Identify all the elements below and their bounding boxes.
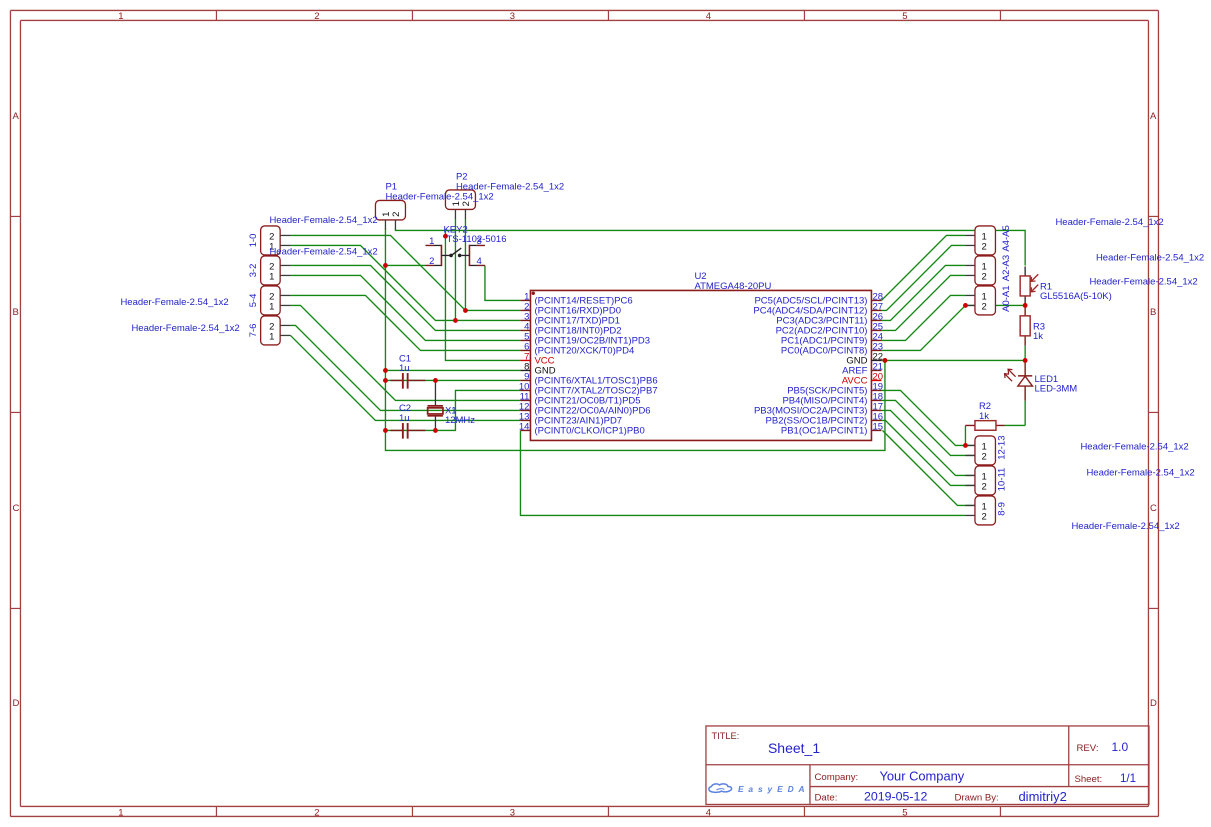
svg-text:D: D bbox=[12, 698, 19, 709]
junction node (435,380) bbox=[433, 378, 438, 383]
svg-text:5-4: 5-4 bbox=[248, 294, 259, 308]
U2 pin 11 (PCINT21/OC0B/T1)PD5 bbox=[520, 391, 641, 406]
svg-text:Sheet_1: Sheet_1 bbox=[768, 740, 820, 756]
svg-text:14: 14 bbox=[519, 421, 530, 432]
junction node (445,235.7) bbox=[443, 234, 448, 239]
wire U2 pin19 to header 12-13 pin1 bbox=[881, 390, 974, 445]
U2 pin 2 (PCINT16/RXD)PD0 bbox=[520, 301, 621, 316]
wire U2 pin10 XTAL2 down to C2/X1 node bbox=[385, 390, 520, 430]
wire LED1 cathode-side junction bbox=[1024, 400, 1026, 425]
wire H3 pin1 to U2 pin11 bbox=[290, 305, 520, 400]
U2 pin 15 PB1(OC1A/PCINT1) bbox=[781, 421, 883, 436]
svg-text:2: 2 bbox=[981, 302, 986, 313]
junction node (884.5,360) bbox=[883, 358, 888, 363]
wire H4 pin2 to U2 pin12 bbox=[290, 325, 520, 410]
svg-text:A: A bbox=[12, 111, 19, 122]
U2 pin 4 (PCINT18/INT0)PD2 bbox=[520, 321, 621, 336]
svg-text:4: 4 bbox=[476, 256, 481, 267]
U2 pin 9 (PCINT6/XTAL1/TOSC1)PB6 bbox=[520, 371, 657, 386]
wire H2 pin1 to U2 pin5 bbox=[290, 275, 520, 340]
U2 pin 25 PC2(ADC2/PCINT10) bbox=[776, 321, 883, 336]
svg-text:2: 2 bbox=[981, 482, 986, 493]
svg-text:Header-Female-2.54_1x2: Header-Female-2.54_1x2 bbox=[385, 191, 493, 202]
wire H3 pin2 to U2 pin6 bbox=[290, 295, 520, 350]
svg-text:REV:: REV: bbox=[1076, 743, 1098, 754]
U2 pin 18 PB4(MISO/PCINT4) bbox=[782, 391, 883, 406]
svg-text:5: 5 bbox=[902, 808, 907, 819]
wire U2 pin15 to header 8-9 pin1 bbox=[882, 430, 974, 505]
wire U2 pin16 to header 10-11 pin2 bbox=[881, 420, 974, 485]
svg-text:1u: 1u bbox=[399, 413, 410, 424]
svg-text:2: 2 bbox=[314, 808, 319, 819]
resistor R3 1k bbox=[1020, 305, 1045, 345]
wire net VCC branch to U2 pin7 bbox=[445, 230, 520, 360]
svg-text:LED-3MM: LED-3MM bbox=[1034, 383, 1077, 394]
svg-text:Header-Female-2.54_1x2: Header-Female-2.54_1x2 bbox=[1086, 468, 1194, 479]
svg-text:Header-Female-2.54_1x2: Header-Female-2.54_1x2 bbox=[456, 181, 564, 192]
U2 pin 24 PC1(ADC1/PCINT9) bbox=[781, 331, 883, 346]
svg-text:15: 15 bbox=[872, 421, 883, 432]
svg-text:4: 4 bbox=[706, 11, 711, 22]
U2 pin 14 (PCINT0/CLKO/ICP1)PB0 bbox=[519, 421, 645, 436]
svg-text:1: 1 bbox=[269, 302, 274, 313]
wire H2 pin2 to U2 pin4 INT0 bbox=[290, 265, 520, 330]
svg-text:1: 1 bbox=[118, 808, 123, 819]
wire net GND: U2 pin22 stub to R3/LED junction bbox=[881, 359, 1025, 361]
connector header 12-13 (Header-Female-2.54_1x2) bbox=[965, 435, 1007, 464]
U2 pin 26 PC3(ADC3/PCINT11) bbox=[776, 311, 883, 326]
IC U2 ATMEGA48-20PU bbox=[519, 271, 883, 441]
U2 pin 23 PC0(ADC0/PCINT8) bbox=[781, 341, 883, 356]
junction node (965,305) bbox=[963, 303, 968, 308]
junction node (465,310) bbox=[463, 308, 468, 313]
svg-text:1/1: 1/1 bbox=[1120, 772, 1136, 785]
connector P2 (Header-Female-2.54_1x2) bbox=[445, 190, 475, 219]
junction node (965,445) bbox=[963, 443, 968, 448]
svg-text:1k: 1k bbox=[1033, 331, 1043, 342]
resistor R2 1k bbox=[965, 401, 1004, 430]
svg-text:1-0: 1-0 bbox=[248, 234, 259, 248]
svg-text:10-11: 10-11 bbox=[996, 468, 1007, 492]
U2 pin 16 PB2(SS/OC1B/PCINT2) bbox=[766, 411, 883, 426]
connector header A4-A5 (Header-Female-2.54_1x2) bbox=[965, 225, 1011, 255]
LED LED1 LED-3MM bbox=[1005, 360, 1078, 400]
wire U2 pin24 to header A0-A1 pin1 bbox=[881, 295, 965, 340]
U2 pin 17 PB3(MOSI/OC2A/PCINT3) bbox=[754, 401, 883, 416]
svg-text:C: C bbox=[12, 503, 19, 514]
svg-text:A4-A5: A4-A5 bbox=[1001, 225, 1012, 251]
wire net VCC: P1 pin2 to right-header A4-A5 pin1 and R1 top bbox=[395, 228, 1025, 265]
svg-text:4: 4 bbox=[706, 808, 711, 819]
svg-text:12MHz: 12MHz bbox=[445, 415, 475, 426]
U2 pin 10 (PCINT7/XTAL2/TOSC2)PB7 bbox=[519, 381, 658, 396]
switch KEY2 TS-1102-5016 bbox=[425, 236, 485, 267]
wire U2 pin14 PB0 to right-header 8-9 pin2 bbox=[520, 430, 965, 515]
wire P2 pin2 down to U2 pin2 node bbox=[464, 218, 466, 310]
connector header 3-2 (Header-Female-2.54_1x2) bbox=[248, 256, 291, 285]
U2 pin 12 (PCINT22/OC0A/AIN0)PD6 bbox=[519, 401, 651, 416]
title block bbox=[706, 726, 1149, 805]
U2 pin 1 (PCINT14/RESET)PC6 bbox=[520, 291, 632, 306]
svg-text:2: 2 bbox=[981, 512, 986, 523]
wire KEY2 pin4 to U2 pin1 RESET bbox=[485, 265, 521, 300]
U2 pin 8 GND bbox=[520, 361, 555, 376]
svg-text:8-9: 8-9 bbox=[996, 502, 1007, 516]
svg-text:1: 1 bbox=[429, 236, 434, 247]
U2 pin 19 PB5(SCK/PCINT5) bbox=[787, 381, 883, 396]
connector header 7-6 (Header-Female-2.54_1x2) bbox=[248, 316, 291, 345]
svg-text:dimitriy2: dimitriy2 bbox=[1018, 789, 1066, 804]
svg-text:2: 2 bbox=[429, 256, 434, 267]
capacitor C1 1u bbox=[390, 353, 425, 388]
U2 pin 22 GND bbox=[846, 351, 883, 366]
junction node (435,430) bbox=[433, 428, 438, 433]
svg-text:3: 3 bbox=[510, 11, 515, 22]
svg-text:EasyEDA: EasyEDA bbox=[738, 784, 810, 794]
U2 pin 6 (PCINT20/XCK/T0)PD4 bbox=[520, 341, 634, 356]
svg-text:B: B bbox=[1150, 307, 1156, 318]
junction node (385,380) bbox=[383, 378, 388, 383]
svg-text:1k: 1k bbox=[979, 411, 989, 422]
junction node (1024.7,305) bbox=[1023, 303, 1028, 308]
svg-text:C: C bbox=[1150, 503, 1157, 514]
wire U2 pin25 to header A2-A3 pin2 bbox=[881, 275, 965, 330]
connector header 10-11 (Header-Female-2.54_1x2) bbox=[965, 466, 1007, 495]
junction node (385,370) bbox=[383, 368, 388, 373]
wire H1 pin2 to U2 pin2 RXD bbox=[290, 235, 520, 310]
svg-text:Header-Female-2.54_1x2: Header-Female-2.54_1x2 bbox=[269, 247, 377, 258]
U2 pin 28 PC5(ADC5/SCL/PCINT13) bbox=[754, 291, 883, 306]
svg-text:Header-Female-2.54_1x2: Header-Female-2.54_1x2 bbox=[131, 323, 239, 334]
U2 pin 5 (PCINT19/OC2B/INT1)PD3 bbox=[520, 331, 650, 346]
svg-text:Header-Female-2.54_1x2: Header-Female-2.54_1x2 bbox=[120, 297, 228, 308]
svg-text:2: 2 bbox=[314, 11, 319, 22]
svg-text:7-6: 7-6 bbox=[248, 324, 259, 338]
wire R3 bottom to GND rail bbox=[1024, 345, 1026, 360]
svg-text:Sheet:: Sheet: bbox=[1074, 774, 1102, 785]
svg-text:Header-Female-2.54_1x2: Header-Female-2.54_1x2 bbox=[269, 215, 377, 226]
capacitor C2 1u bbox=[390, 403, 425, 439]
wire U2 pin27 to header A4-A5 pin2 bbox=[881, 245, 965, 310]
svg-text:A: A bbox=[1150, 111, 1157, 122]
wire U2 pin8 GND to left GND rail bbox=[385, 369, 520, 371]
junction node (455,320) bbox=[453, 318, 458, 323]
svg-text:PB1(OC1A/PCINT1): PB1(OC1A/PCINT1) bbox=[781, 426, 868, 437]
U2 pin 27 PC4(ADC4/SDA/PCINT12) bbox=[753, 301, 883, 316]
svg-text:Header-Female-2.54_1x2: Header-Female-2.54_1x2 bbox=[1071, 521, 1179, 532]
svg-text:(PCINT0/CLKO/ICP1)PB0: (PCINT0/CLKO/ICP1)PB0 bbox=[534, 426, 644, 437]
U2 pin 7 VCC bbox=[520, 351, 554, 366]
wire H1 pin1 to U2 pin3 TXD bbox=[290, 245, 520, 320]
svg-text:Header-Female-2.54_1x2: Header-Female-2.54_1x2 bbox=[1089, 276, 1197, 287]
svg-text:12-13: 12-13 bbox=[996, 435, 1007, 459]
svg-text:3: 3 bbox=[510, 808, 515, 819]
wire LED1 bottom to R2 right bbox=[1004, 424, 1025, 426]
svg-text:Drawn By:: Drawn By: bbox=[954, 793, 998, 804]
wire X1 crystal vertical lead bottom bbox=[434, 416, 436, 431]
svg-text:Header-Female-2.54_1x2: Header-Female-2.54_1x2 bbox=[1080, 442, 1188, 453]
wire H4 pin1 to U2 pin13 bbox=[290, 335, 520, 420]
svg-text:B: B bbox=[12, 307, 18, 318]
U2 pin 13 (PCINT23/AIN1)PD7 bbox=[519, 411, 622, 426]
svg-text:A2-A3: A2-A3 bbox=[1001, 255, 1012, 281]
svg-text:Header-Female-2.54_1x2: Header-Female-2.54_1x2 bbox=[1096, 253, 1204, 264]
svg-text:1: 1 bbox=[269, 332, 274, 343]
connector P1 (Header-Female-2.54_1x2) bbox=[375, 200, 405, 229]
svg-text:Date:: Date: bbox=[814, 792, 837, 803]
svg-text:1: 1 bbox=[269, 272, 274, 283]
EasyEDA logo bbox=[709, 784, 810, 794]
wire net GND: P1 pin1 down left side, across bottom, up to U2 pin22 bbox=[385, 228, 885, 450]
connector header A2-A3 (Header-Female-2.54_1x2) bbox=[965, 255, 1011, 285]
svg-text:1u: 1u bbox=[399, 363, 410, 374]
svg-text:3-2: 3-2 bbox=[248, 264, 259, 278]
svg-text:Header-Female-2.54_1x2: Header-Female-2.54_1x2 bbox=[1055, 217, 1163, 228]
wire U2 pin26 to header A2-A3 pin1 bbox=[881, 265, 965, 320]
svg-text:D: D bbox=[1150, 698, 1157, 709]
wire U2 pin28 to header A4-A5 pin1 bbox=[881, 235, 965, 300]
wire P2 pin1 down to U2 pin3 node bbox=[454, 218, 456, 320]
svg-text:Company:: Company: bbox=[814, 772, 858, 783]
connector header 1-0 (Header-Female-2.54_1x2) bbox=[248, 226, 291, 255]
svg-text:GL5516A(5-10K): GL5516A(5-10K) bbox=[1040, 291, 1112, 302]
connector header 8-9 (Header-Female-2.54_1x2) bbox=[965, 496, 1007, 525]
svg-text:5: 5 bbox=[902, 11, 907, 22]
svg-text:2: 2 bbox=[981, 272, 986, 283]
wire U2 pin18 to header 12-13 pin2 bbox=[881, 400, 974, 455]
svg-text:2: 2 bbox=[391, 212, 402, 217]
U2 pin 21 AREF bbox=[842, 361, 883, 376]
junction node (385,430) bbox=[383, 428, 388, 433]
junction node (1024.7,360) bbox=[1023, 358, 1028, 363]
svg-text:TS-1102-5016: TS-1102-5016 bbox=[446, 234, 506, 245]
wire KEY2 pin2 to GND bbox=[385, 264, 425, 266]
svg-text:A0-A1: A0-A1 bbox=[1001, 285, 1012, 311]
wire R2 left down to header 12-13 pin1 node bbox=[964, 425, 966, 445]
svg-text:ATMEGA48-20PU: ATMEGA48-20PU bbox=[694, 281, 771, 292]
wire U2 pin9 XTAL1 to C1/X1 node bbox=[385, 379, 520, 381]
svg-text:2: 2 bbox=[981, 452, 986, 463]
U2 pin 3 (PCINT17/TXD)PD1 bbox=[520, 311, 620, 326]
wire X1 crystal vertical lead top bbox=[434, 380, 436, 406]
U2 pin 20 AVCC bbox=[842, 371, 883, 386]
wire U2 pin17 to header 10-11 pin1 bbox=[881, 410, 974, 475]
svg-text:TITLE:: TITLE: bbox=[711, 731, 739, 741]
svg-text:2: 2 bbox=[981, 242, 986, 253]
crystal X1 12MHz bbox=[427, 405, 475, 426]
photoresistor R1 GL5516A(5-10K) bbox=[1020, 266, 1112, 305]
svg-text:1: 1 bbox=[118, 11, 123, 22]
connector header 5-4 (Header-Female-2.54_1x2) bbox=[248, 286, 291, 315]
junction node (385,265) bbox=[383, 263, 388, 268]
svg-text:2019-05-12: 2019-05-12 bbox=[864, 790, 927, 804]
connector header A0-A1 (Header-Female-2.54_1x2) bbox=[965, 285, 1011, 315]
wire U2 pin23 to header A0-A1 pin2 and R1/R3 junction bbox=[881, 305, 965, 350]
svg-text:1.0: 1.0 bbox=[1111, 740, 1128, 754]
svg-text:Your Company: Your Company bbox=[879, 769, 964, 784]
wire header A0-A1 pin2 node to R1/R3 junction bbox=[965, 304, 1025, 306]
